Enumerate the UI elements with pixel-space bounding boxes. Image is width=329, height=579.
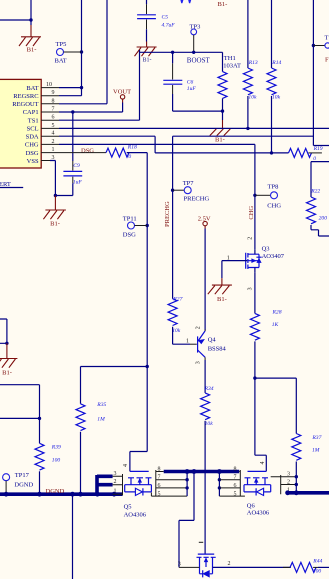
svg-text:AO3407: AO3407 [262, 253, 285, 260]
node R37 branch [253, 376, 256, 379]
svg-text:CHG: CHG [25, 142, 39, 149]
node TP junction right [312, 44, 315, 47]
svg-text:TH1: TH1 [224, 55, 236, 62]
pin 7 CAP1 [41, 111, 59, 113]
node bus Q6 tie [217, 469, 222, 474]
test point TP5 [55, 41, 82, 64]
svg-text:5: 5 [158, 491, 161, 497]
wire PRECHG net [172, 136, 174, 299]
wire bus drop to bottom edge [72, 494, 74, 579]
pin 2 CHG [41, 143, 59, 145]
svg-text:DSG: DSG [123, 232, 136, 239]
svg-text:6: 6 [52, 115, 55, 121]
svg-text:10k: 10k [172, 328, 181, 334]
Q5 pin stubs left [113, 474, 123, 495]
partial glyphs at top edge [180, 0, 191, 3]
Q6 tie bar left [218, 472, 220, 497]
Q6 mosfet symbol [244, 471, 271, 484]
wire REGOUT net [59, 0, 107, 104]
ground B1- (VSS) [43, 196, 66, 228]
svg-text:2: 2 [52, 139, 55, 145]
no-connect dash [199, 541, 203, 543]
svg-text:8: 8 [234, 466, 237, 472]
svg-text:ERT: ERT [0, 181, 11, 188]
svg-text:R13: R13 [248, 60, 258, 66]
wire left edge y319 to ground [0, 319, 7, 343]
svg-text:SDA: SDA [26, 133, 39, 140]
Q5 pin stubs right [151, 470, 187, 497]
svg-text:REGOUT: REGOUT [12, 101, 38, 108]
svg-text:100: 100 [52, 458, 61, 464]
capacitor C9 [55, 112, 82, 196]
wire TS1 net to B1- [59, 50, 140, 120]
svg-text:Q3: Q3 [262, 245, 270, 252]
test point TP8 [255, 183, 281, 209]
svg-text:B1-: B1- [50, 220, 60, 227]
ground B1- (TH1) [210, 120, 231, 136]
node CAP1/C9 [71, 110, 74, 113]
svg-text:7: 7 [52, 107, 55, 113]
wire CAP1 net [59, 103, 123, 113]
wire to R37 [255, 378, 296, 433]
resistor R35 [76, 402, 107, 494]
svg-text:8: 8 [158, 466, 161, 472]
svg-text:1K: 1K [272, 322, 279, 328]
wire BAT net [59, 0, 82, 96]
svg-text:BOOST: BOOST [187, 56, 211, 64]
svg-text:C5: C5 [162, 15, 169, 21]
transistor Q7 [194, 554, 216, 579]
resistor R14 [267, 0, 282, 153]
svg-text:B1-: B1- [217, 296, 227, 303]
Q5 body diode [125, 485, 152, 496]
wire Q7 drain to R44 [213, 566, 291, 568]
svg-text:R28: R28 [272, 310, 282, 316]
wire Q3 to R28 [254, 273, 256, 314]
node VSS/C9 [54, 194, 57, 197]
resistor R27 [168, 296, 183, 334]
node R35 branch [146, 365, 149, 368]
node bus drop [70, 492, 75, 497]
wire R28 down to Q6 gate [255, 341, 266, 471]
svg-text:R18: R18 [127, 144, 137, 150]
node C6 top [171, 51, 174, 54]
svg-text:TP8: TP8 [268, 183, 279, 190]
svg-text:Q4: Q4 [208, 336, 217, 343]
node TP7 [171, 189, 174, 192]
svg-text:BSS84: BSS84 [208, 345, 227, 352]
ground B1- (left mid) [0, 343, 17, 376]
svg-text:BAT: BAT [26, 85, 38, 92]
node R14/SDA [270, 151, 273, 154]
svg-text:C6: C6 [187, 80, 194, 86]
pin 3 VSS [41, 160, 50, 162]
svg-text:3: 3 [248, 287, 254, 290]
pin 4 SDA [41, 135, 59, 137]
node R13/SCL [246, 127, 249, 130]
svg-text:CHG: CHG [267, 202, 281, 209]
IC U? battery gauge [0, 79, 41, 168]
wire SDA net [59, 136, 289, 153]
node top-left junction [29, 18, 32, 21]
svg-text:TP7: TP7 [183, 180, 195, 187]
power port 2.5V [198, 215, 211, 228]
svg-text:10k: 10k [248, 95, 257, 101]
svg-text:PRECHG: PRECHG [184, 196, 210, 203]
svg-text:T: T [325, 35, 329, 42]
svg-text:PRECHG: PRECHG [164, 201, 171, 227]
wire thick bus upper [164, 470, 240, 474]
svg-text:4: 4 [260, 462, 266, 465]
wire tie bar Q5 right [186, 472, 188, 497]
svg-text:DSG: DSG [81, 147, 94, 154]
wire VSS net [50, 161, 55, 196]
svg-text:3: 3 [178, 562, 181, 568]
port label ERT (cut) [0, 181, 23, 188]
svg-text:8: 8 [52, 98, 55, 104]
svg-text:DSG: DSG [26, 150, 39, 157]
svg-text:R39: R39 [51, 445, 61, 451]
Q5 mosfet symbol [125, 471, 152, 484]
transistor Q3 AO3407 [246, 245, 285, 273]
svg-text:C9: C9 [73, 163, 80, 169]
node BAT pin10 [80, 86, 83, 89]
wire Q4 to R34 [204, 330, 206, 361]
node bus R39 [37, 492, 42, 497]
wire Q6 right tie [295, 477, 297, 493]
svg-text:4.7uF: 4.7uF [162, 22, 176, 28]
pin 6 TS1 [41, 119, 59, 121]
node TP11 [146, 224, 149, 227]
resistor R37 [292, 434, 322, 477]
ground B1- (below C5) [135, 42, 157, 64]
svg-text:2: 2 [287, 479, 290, 485]
resistor R19 [289, 146, 323, 162]
transistor Q6 AO4306 [218, 462, 297, 517]
wire Q7 source row [179, 566, 200, 568]
wire B1- top-left [0, 0, 31, 20]
svg-text:3: 3 [287, 472, 290, 478]
svg-text:B1-: B1- [143, 58, 152, 64]
test point TP (right edge) [313, 35, 329, 64]
wire B1- row [173, 135, 314, 137]
node TP8 [253, 194, 256, 197]
svg-text:2: 2 [195, 326, 201, 329]
svg-text:R37: R37 [311, 435, 321, 441]
svg-text:TS1: TS1 [28, 117, 39, 124]
svg-text:7: 7 [158, 475, 161, 481]
svg-text:R19: R19 [313, 146, 323, 152]
svg-text:1: 1 [52, 147, 55, 153]
Q7 body diode [200, 567, 213, 577]
svg-text:AO4306: AO4306 [124, 512, 147, 519]
svg-text:4: 4 [123, 464, 129, 467]
svg-text:DGND: DGND [14, 481, 33, 488]
test point TP7 [173, 180, 210, 203]
resistor R18 [106, 144, 137, 160]
pin 10 BAT [41, 87, 59, 89]
resistor R13 [243, 0, 258, 128]
Q6 right contact [271, 475, 281, 494]
svg-text:TP11: TP11 [123, 215, 137, 222]
wire thick B1- pack right [288, 491, 329, 495]
svg-text:4: 4 [52, 131, 55, 137]
node R39 top [38, 417, 41, 420]
ground B1- (top-left) [19, 20, 41, 54]
node bus drop Q7 [192, 469, 197, 474]
svg-text:R44: R44 [312, 559, 322, 565]
wire CHG pin net [59, 144, 255, 249]
svg-text:R34: R34 [204, 386, 214, 392]
wire DSG pin to R18 [59, 152, 106, 154]
svg-text:Q6: Q6 [247, 502, 256, 509]
test point TP11 [123, 215, 147, 238]
svg-text:CAP1: CAP1 [23, 109, 39, 116]
wire left edge pair to R39 [0, 385, 40, 444]
svg-text:B1-: B1- [2, 370, 12, 377]
svg-text:2: 2 [248, 237, 254, 240]
test point TP17 [3, 472, 34, 494]
svg-text:7: 7 [234, 475, 237, 481]
svg-text:AO4306: AO4306 [247, 509, 270, 516]
Q6 pin stubs left [219, 470, 245, 497]
svg-text:VSS: VSS [27, 158, 39, 165]
svg-text:B1-: B1- [215, 136, 225, 143]
svg-text:TP17: TP17 [15, 472, 30, 479]
svg-text:1uF: 1uF [73, 180, 83, 186]
svg-text:TP5: TP5 [56, 41, 67, 48]
node TP3 [192, 51, 195, 54]
resistor R34 [201, 386, 214, 427]
svg-text:BAT: BAT [55, 58, 67, 65]
wire R34 down to Q7 gate [204, 421, 206, 554]
svg-text:Q5: Q5 [124, 504, 132, 511]
svg-text:5: 5 [234, 491, 237, 497]
svg-text:DGND: DGND [46, 488, 65, 495]
svg-text:1uF: 1uF [187, 86, 197, 92]
svg-text:100: 100 [313, 568, 322, 574]
svg-text:103AT: 103AT [223, 62, 241, 69]
pin 5 SCL [41, 127, 59, 129]
svg-text:2: 2 [114, 479, 117, 485]
resistor R44 [283, 559, 329, 575]
transistor Q4 BSS84 [198, 331, 227, 357]
svg-text:5: 5 [52, 123, 55, 129]
svg-text:3: 3 [114, 471, 117, 477]
capacitor C6 [163, 52, 222, 111]
wire DGND thick bus [0, 492, 123, 496]
svg-text:REGSRC: REGSRC [13, 93, 38, 100]
svg-text:200: 200 [319, 216, 328, 222]
svg-text:3: 3 [195, 361, 201, 364]
wire BOOST net [140, 51, 223, 53]
svg-text:1M: 1M [312, 448, 320, 454]
test point TP3 [190, 24, 201, 53]
power port VOUT [113, 88, 131, 99]
wire B1- rail right [313, 0, 329, 146]
resistor R22 [307, 189, 328, 224]
wire SCL net [59, 127, 329, 129]
svg-text:CHG: CHG [248, 206, 255, 220]
wire bus to Q7 source [179, 472, 194, 568]
svg-text:9: 9 [52, 90, 55, 96]
svg-text:10: 10 [46, 82, 52, 88]
wire R22 to right edge [311, 225, 329, 236]
node bus TP17 [4, 492, 9, 497]
wire DSG net vertical [127, 153, 148, 472]
svg-text:1M: 1M [97, 416, 105, 422]
svg-text:10k: 10k [272, 95, 281, 101]
svg-text:R27: R27 [172, 296, 182, 302]
resistor R39 [35, 443, 61, 494]
svg-text:6: 6 [234, 483, 237, 489]
wire Q3 gate to ground [222, 261, 247, 279]
svg-text:6: 6 [158, 483, 161, 489]
node bus Q5 tie [185, 469, 190, 474]
node left ground junction [5, 342, 8, 345]
node TH1 bottom [221, 109, 224, 112]
node TP5 [80, 50, 83, 53]
wire R35 top branch [81, 367, 148, 404]
svg-text:SCL: SCL [27, 126, 39, 133]
svg-text:R35: R35 [96, 402, 106, 408]
node bus R35 [78, 492, 83, 497]
svg-text:2: 2 [228, 561, 231, 567]
pin 1 DSG [41, 152, 59, 154]
svg-text:R22: R22 [310, 189, 320, 195]
ground B1- (Q3 gate) [208, 278, 232, 303]
pin 8 REGOUT [41, 103, 59, 105]
resistor R28 [250, 310, 281, 341]
svg-text:B1-: B1- [218, 1, 228, 8]
pin 9 REGSRC [41, 95, 59, 97]
svg-text:B1-: B1- [27, 47, 37, 54]
Q6 pin stubs right [281, 477, 297, 493]
svg-text:F: F [325, 57, 329, 64]
svg-text:1: 1 [186, 339, 189, 345]
svg-text:10k: 10k [205, 421, 214, 427]
Q6 body diode [244, 485, 271, 496]
capacitor C5 [137, 0, 175, 42]
svg-text:R14: R14 [271, 60, 281, 66]
Q5 thick pin tie left [97, 475, 113, 495]
thermistor TH1 [218, 52, 241, 120]
wire R22 top row [311, 162, 329, 197]
svg-text:0: 0 [313, 156, 316, 162]
wire R27 to Q4 base [173, 327, 190, 345]
svg-text:0: 0 [128, 154, 131, 160]
svg-text:1: 1 [114, 489, 117, 495]
transistor Q5 AO4306 [95, 464, 187, 519]
wire 2.5V to Q4 [204, 229, 206, 331]
